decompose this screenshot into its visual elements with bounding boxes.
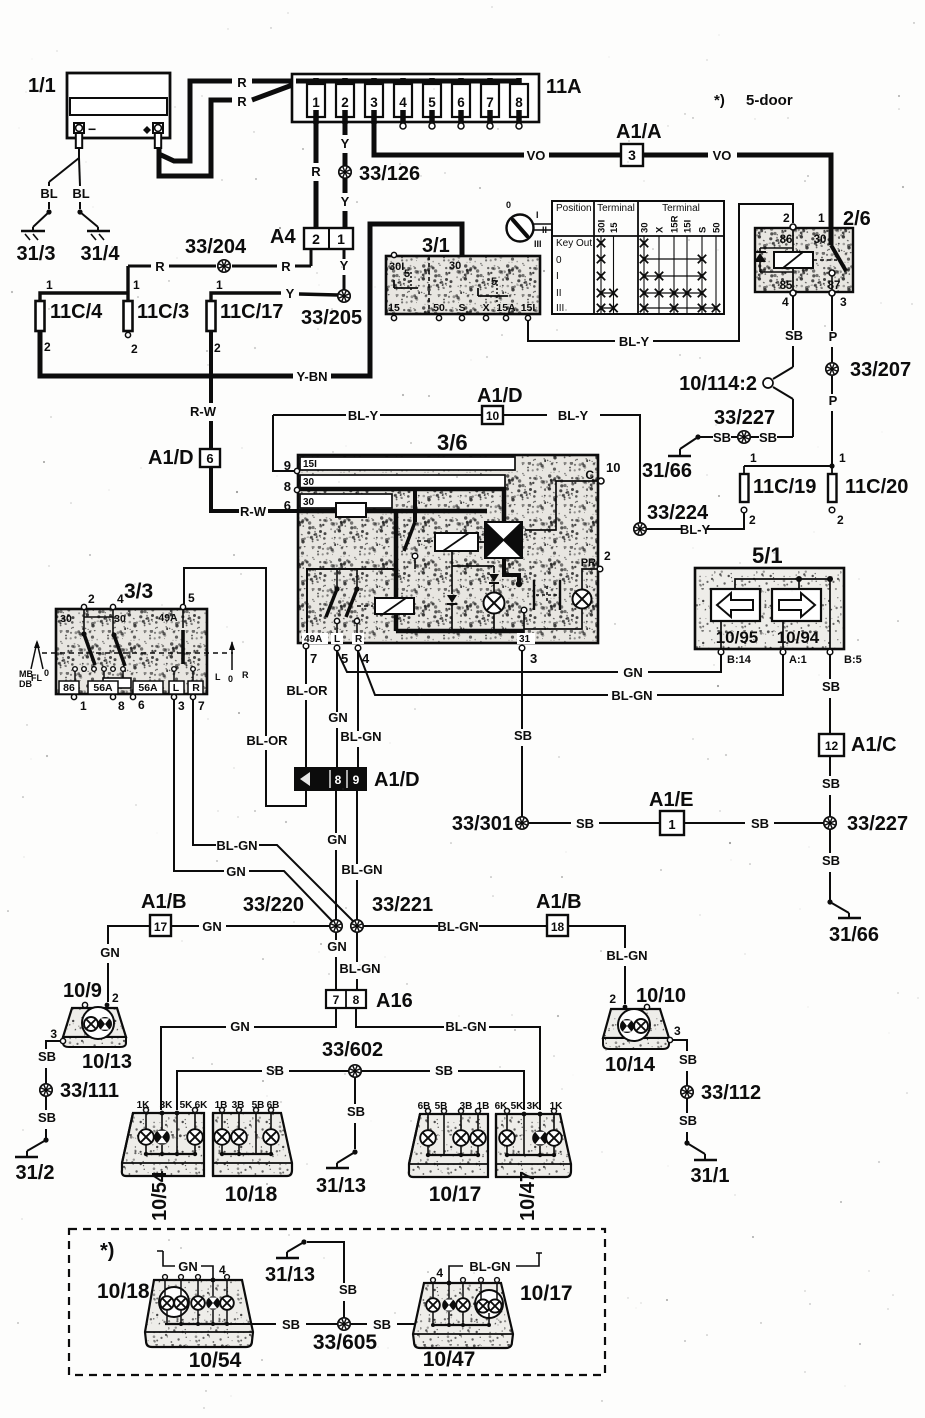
svg-text:X: X bbox=[482, 302, 489, 314]
3/6 switch upper bbox=[413, 491, 417, 522]
svg-text:BL-GN: BL-GN bbox=[606, 948, 647, 963]
svg-text:10: 10 bbox=[606, 460, 620, 475]
wire A4-1 Y down bbox=[343, 249, 346, 259]
wire VO to relay 2/6 term 30 bbox=[737, 155, 831, 228]
svg-text:30: 30 bbox=[640, 222, 651, 233]
3/3 right lever symbol bbox=[231, 642, 233, 670]
svg-text:R: R bbox=[237, 75, 247, 90]
indicator 10/95 (left arrow) bbox=[711, 589, 760, 621]
svg-text:2: 2 bbox=[341, 95, 349, 110]
svg-text:11C/17: 11C/17 bbox=[220, 301, 283, 323]
svg-text:SB: SB bbox=[785, 328, 803, 343]
svg-text:SB: SB bbox=[282, 1317, 300, 1332]
svg-text:III: III bbox=[534, 239, 542, 249]
svg-text:*): *) bbox=[100, 1240, 114, 1262]
wire SB 33/605 up to 31/13 bbox=[343, 1301, 345, 1318]
svg-text:1: 1 bbox=[750, 451, 757, 465]
3/6 bottom terminals bbox=[303, 643, 309, 649]
3/3 bottom terminals bbox=[71, 694, 76, 699]
svg-text:5: 5 bbox=[491, 276, 497, 288]
svg-text:11C/4: 11C/4 bbox=[50, 301, 103, 323]
svg-text:10/47: 10/47 bbox=[517, 1171, 539, 1221]
svg-text:Position: Position bbox=[556, 203, 592, 214]
ground 31/1 bbox=[684, 1140, 689, 1145]
svg-text:2: 2 bbox=[749, 513, 756, 527]
svg-text:15: 15 bbox=[388, 302, 400, 314]
ground 31/66 bbox=[695, 434, 700, 439]
svg-text:3K: 3K bbox=[527, 1101, 541, 1112]
wire fuse3 VO bbox=[374, 122, 524, 155]
svg-text:10/17: 10/17 bbox=[429, 1183, 482, 1206]
svg-text:33/224: 33/224 bbox=[647, 502, 709, 524]
fuse 2 bbox=[342, 78, 348, 92]
svg-text:18: 18 bbox=[551, 920, 565, 934]
svg-text:1: 1 bbox=[80, 699, 87, 713]
svg-text:1: 1 bbox=[216, 278, 223, 292]
10/54 5-door bus bbox=[166, 1310, 168, 1324]
svg-text:I: I bbox=[536, 210, 539, 220]
wire P from 2/6-87 bbox=[831, 296, 833, 331]
10/18 internal bus bbox=[221, 1145, 223, 1154]
wire fuse1 R to A4 bbox=[314, 122, 319, 163]
svg-text:BL-GN: BL-GN bbox=[611, 688, 652, 703]
svg-text:3: 3 bbox=[50, 1027, 57, 1041]
svg-text:S: S bbox=[458, 302, 465, 314]
svg-text:15I: 15I bbox=[521, 302, 536, 314]
svg-text:GN: GN bbox=[100, 945, 120, 960]
svg-text:4: 4 bbox=[399, 95, 407, 110]
svg-text:SB: SB bbox=[38, 1110, 56, 1125]
svg-text:8: 8 bbox=[515, 95, 523, 110]
wire battery plus path B (R) bbox=[159, 100, 232, 176]
svg-text:BL-Y: BL-Y bbox=[348, 408, 379, 423]
rear lamp cluster 10/17 bbox=[409, 1114, 488, 1177]
10/54 internal bus bbox=[145, 1145, 147, 1154]
svg-text:R: R bbox=[237, 94, 247, 109]
svg-text:3: 3 bbox=[628, 147, 636, 163]
svg-text:SB: SB bbox=[759, 430, 777, 445]
splice 33/605 bbox=[338, 1318, 350, 1330]
3/6 relay coil 2 + switches bbox=[375, 598, 414, 614]
svg-text:BL-GN: BL-GN bbox=[340, 729, 381, 744]
svg-text:4: 4 bbox=[782, 295, 789, 309]
splice 33/205 bbox=[338, 290, 350, 302]
svg-text:PR: PR bbox=[581, 557, 596, 569]
wire GN below 33/220 bbox=[335, 932, 337, 940]
svg-text:II: II bbox=[556, 288, 562, 299]
svg-text:50: 50 bbox=[433, 302, 445, 314]
svg-text:56A: 56A bbox=[93, 682, 113, 694]
svg-text:C: C bbox=[585, 468, 594, 482]
svg-text:8: 8 bbox=[353, 993, 360, 1007]
svg-text:0: 0 bbox=[506, 200, 511, 210]
svg-text:A1/D: A1/D bbox=[374, 769, 420, 791]
svg-text:17: 17 bbox=[154, 920, 168, 934]
svg-text:10/13: 10/13 bbox=[82, 1051, 132, 1073]
svg-text:GN: GN bbox=[178, 1259, 198, 1274]
svg-text:3/6: 3/6 bbox=[437, 430, 468, 455]
10/47 5-door bus bbox=[432, 1312, 434, 1325]
wire SB 10/54 bus to 33/605 bbox=[229, 1323, 276, 1325]
svg-text:30: 30 bbox=[814, 234, 827, 246]
svg-text:10/95: 10/95 bbox=[716, 628, 759, 647]
svg-text:1: 1 bbox=[337, 231, 345, 247]
svg-text:A1/A: A1/A bbox=[616, 121, 662, 143]
splice 33/602 bbox=[349, 1065, 361, 1077]
2/6 diode bbox=[760, 248, 793, 272]
svg-text:86: 86 bbox=[780, 234, 793, 246]
svg-text:10/18: 10/18 bbox=[225, 1183, 278, 1206]
svg-text:−: − bbox=[88, 121, 96, 137]
svg-text:12: 12 bbox=[825, 739, 839, 753]
svg-text:BL: BL bbox=[72, 186, 89, 201]
svg-text:50: 50 bbox=[712, 222, 723, 233]
svg-text:1: 1 bbox=[133, 278, 140, 292]
wire BL-GN A16-8 to 10/47 bbox=[356, 1008, 444, 1027]
svg-text:SB: SB bbox=[679, 1113, 697, 1128]
svg-text:30: 30 bbox=[303, 497, 315, 508]
2/6 terminals 85 87 bbox=[790, 290, 796, 296]
svg-text:SB: SB bbox=[822, 776, 840, 791]
svg-text:30: 30 bbox=[449, 260, 461, 272]
rear lamp cluster 10/18 bbox=[213, 1113, 292, 1176]
svg-text:*): *) bbox=[714, 92, 725, 109]
wire BL-GN 3/3-7 to 33/221 bbox=[193, 699, 216, 845]
svg-text:P: P bbox=[829, 393, 838, 408]
svg-text:BL-GN: BL-GN bbox=[216, 838, 257, 853]
svg-text:6: 6 bbox=[206, 451, 213, 466]
wire SB 33/602 to ground bbox=[354, 1077, 356, 1104]
wire SB B:5 down bbox=[829, 655, 831, 679]
svg-text:A1/D: A1/D bbox=[477, 385, 523, 407]
splice 33/207 bbox=[826, 363, 838, 375]
svg-text:8: 8 bbox=[284, 479, 291, 494]
svg-text:11C/19: 11C/19 bbox=[753, 476, 816, 498]
svg-text:2: 2 bbox=[88, 592, 95, 606]
wire BL-Y 3/1 to 2/6 bbox=[528, 320, 615, 341]
svg-text:7: 7 bbox=[310, 651, 317, 666]
svg-text:R: R bbox=[155, 259, 165, 274]
3/3 internal link bbox=[83, 610, 85, 617]
svg-text:11C/20: 11C/20 bbox=[845, 476, 908, 498]
svg-text:33/112: 33/112 bbox=[701, 1082, 761, 1104]
svg-text:31/13: 31/13 bbox=[265, 1264, 315, 1286]
svg-text:2: 2 bbox=[112, 991, 119, 1005]
svg-text:9: 9 bbox=[353, 773, 360, 787]
splice 33/204 bbox=[218, 260, 230, 272]
10/54 lamps bbox=[145, 1113, 147, 1130]
fuse 7 bbox=[487, 78, 493, 92]
svg-text:9: 9 bbox=[284, 458, 291, 473]
fuse 5 bbox=[429, 78, 435, 92]
ignition position table bbox=[552, 201, 724, 314]
svg-text:30: 30 bbox=[303, 477, 315, 488]
svg-text:56A: 56A bbox=[138, 682, 158, 694]
svg-text:Terminal: Terminal bbox=[597, 203, 635, 214]
splice 33/221 bbox=[351, 920, 363, 932]
3/3 compartments bbox=[59, 681, 79, 694]
wire SB from 2/6-85 bbox=[792, 296, 794, 330]
svg-text:BL-GN: BL-GN bbox=[437, 919, 478, 934]
5-door lamp cluster 10/54 bbox=[145, 1280, 253, 1347]
svg-text:GN: GN bbox=[623, 665, 643, 680]
svg-text:10: 10 bbox=[486, 409, 500, 423]
svg-text:33/227: 33/227 bbox=[847, 813, 908, 835]
10/47 lamps bbox=[506, 1114, 508, 1131]
svg-text:A1/E: A1/E bbox=[649, 789, 693, 811]
svg-text:5: 5 bbox=[404, 268, 410, 280]
svg-text:B:14: B:14 bbox=[727, 654, 752, 666]
fuse 3 bbox=[371, 78, 377, 92]
svg-text:2: 2 bbox=[44, 340, 51, 354]
ground 31/13 (5-door) bbox=[301, 1239, 306, 1244]
svg-text:SB: SB bbox=[339, 1282, 357, 1297]
svg-text:BL-GN: BL-GN bbox=[469, 1259, 510, 1274]
svg-text:3: 3 bbox=[840, 295, 847, 309]
svg-text:33/126: 33/126 bbox=[359, 163, 420, 185]
3/6 internal fuse bbox=[336, 503, 366, 517]
10/47 internal bus bbox=[506, 1146, 508, 1155]
svg-text:31/66: 31/66 bbox=[829, 924, 879, 946]
svg-text:33/111: 33/111 bbox=[60, 1080, 119, 1102]
svg-text:5K: 5K bbox=[511, 1101, 525, 1112]
wire BL-OR loop under A1/D to 3/3-5 bbox=[266, 750, 306, 806]
fuse 4 bbox=[400, 78, 406, 92]
3/3 49A switch bbox=[182, 610, 184, 628]
wire battery plus path A (R) bbox=[159, 81, 232, 161]
svg-text:15: 15 bbox=[609, 222, 620, 233]
svg-text:15I: 15I bbox=[683, 220, 694, 233]
svg-text:Y: Y bbox=[341, 136, 350, 151]
svg-text:Y: Y bbox=[286, 286, 295, 301]
svg-text:1: 1 bbox=[312, 95, 320, 110]
svg-text:A1/D: A1/D bbox=[148, 447, 194, 469]
svg-text:6: 6 bbox=[284, 498, 291, 513]
wire Y-BN 11C/4 to 3/1 bbox=[40, 331, 293, 376]
3/6 diode 1 bbox=[451, 551, 453, 569]
svg-text:11C/3: 11C/3 bbox=[137, 301, 189, 323]
svg-text:SB: SB bbox=[822, 853, 840, 868]
svg-text:3K: 3K bbox=[160, 1100, 174, 1111]
rear lamp cluster 10/54 bbox=[122, 1113, 204, 1176]
svg-text:R: R bbox=[242, 670, 249, 680]
2/6 switch bbox=[829, 228, 834, 245]
svg-text:BL-GN: BL-GN bbox=[445, 1019, 486, 1034]
svg-text:A16: A16 bbox=[376, 990, 413, 1012]
svg-text:BL: BL bbox=[40, 186, 57, 201]
svg-text:1: 1 bbox=[46, 278, 53, 292]
svg-text:31/66: 31/66 bbox=[642, 460, 692, 482]
svg-text:2: 2 bbox=[609, 992, 616, 1006]
svg-text:SB: SB bbox=[751, 816, 769, 831]
3/6 31 node bbox=[521, 607, 527, 613]
svg-text:A1/B: A1/B bbox=[141, 891, 187, 913]
wire SB line to 33/227 bbox=[777, 436, 793, 438]
svg-text:31: 31 bbox=[519, 634, 531, 645]
splice 33/227 bbox=[738, 431, 750, 443]
wire GN A16-7 to 10/54 bbox=[254, 1008, 336, 1027]
wire BL-GN A1/B-18 to 10/10 bbox=[568, 926, 625, 948]
5-door lamp cluster 10/47 bbox=[413, 1283, 513, 1348]
3/3 contact row bbox=[73, 667, 78, 672]
svg-text:33/207: 33/207 bbox=[850, 359, 911, 381]
wire BL-GN 3/6-4 down bbox=[357, 651, 359, 731]
svg-text:3: 3 bbox=[178, 699, 185, 713]
svg-text:49A: 49A bbox=[158, 612, 178, 624]
ground 31/13 bbox=[352, 1149, 357, 1154]
5/1 pins bbox=[718, 649, 724, 655]
3/6 relay coil 1 bbox=[417, 540, 433, 542]
svg-text:SB: SB bbox=[373, 1317, 391, 1332]
svg-text:A4: A4 bbox=[270, 226, 296, 248]
svg-text:R: R bbox=[311, 164, 321, 179]
svg-text:30I: 30I bbox=[389, 261, 404, 273]
svg-text:Terminal: Terminal bbox=[662, 203, 700, 214]
svg-text:33/220: 33/220 bbox=[243, 894, 304, 916]
wire 11C/19 to 11C/20 link bbox=[744, 465, 832, 467]
svg-text:X: X bbox=[655, 226, 666, 233]
connector A1/C pin 12 bbox=[819, 734, 844, 756]
svg-text:FL: FL bbox=[31, 673, 42, 683]
svg-text:P: P bbox=[829, 329, 838, 344]
svg-text:GN: GN bbox=[327, 939, 347, 954]
wire A4-2 to R line bbox=[310, 249, 313, 266]
wire battery minus to BL branches bbox=[78, 148, 80, 158]
svg-text:31/3: 31/3 bbox=[17, 243, 56, 265]
svg-text:R-W: R-W bbox=[190, 404, 217, 419]
svg-text:L: L bbox=[334, 634, 340, 645]
svg-text:SB: SB bbox=[679, 1052, 697, 1067]
connector A16 bbox=[326, 990, 366, 1008]
svg-text:GN: GN bbox=[327, 832, 347, 847]
5/1 internal wires bbox=[735, 579, 830, 589]
wire SB to 10/47-5K bbox=[458, 1071, 524, 1110]
splice 33/111 bbox=[40, 1084, 52, 1096]
svg-text:A1/B: A1/B bbox=[536, 891, 582, 913]
splice 33/112 bbox=[681, 1086, 693, 1098]
wire fuse2 Y bbox=[343, 122, 348, 135]
svg-text:10/14: 10/14 bbox=[605, 1054, 656, 1076]
key symbol bbox=[507, 215, 534, 242]
fuse 1 bbox=[313, 78, 319, 92]
rear lamp cluster 10/47 bbox=[496, 1114, 571, 1177]
svg-text:15R: 15R bbox=[670, 215, 681, 233]
svg-text:33/602: 33/602 bbox=[322, 1039, 383, 1061]
svg-text:BL-GN: BL-GN bbox=[341, 862, 382, 877]
splice 33/301 bbox=[516, 817, 528, 829]
svg-text:R-W: R-W bbox=[240, 504, 267, 519]
fuse 6 bbox=[458, 78, 464, 92]
splice 33/220 bbox=[330, 920, 342, 932]
wire fuse bus bbox=[296, 79, 519, 84]
svg-text:30: 30 bbox=[60, 613, 72, 625]
5-door variant dashed box bbox=[69, 1229, 605, 1375]
svg-text:1: 1 bbox=[839, 451, 846, 465]
svg-text:III: III bbox=[556, 303, 564, 314]
10/47 5-door terminals bbox=[431, 1278, 436, 1283]
svg-text:2: 2 bbox=[131, 342, 138, 356]
svg-text:8: 8 bbox=[335, 773, 342, 787]
svg-text:SB: SB bbox=[38, 1049, 56, 1064]
10/47 5-door lamps bbox=[426, 1298, 440, 1312]
svg-text:0: 0 bbox=[556, 255, 562, 266]
svg-text:1: 1 bbox=[818, 211, 825, 225]
svg-text:B:5: B:5 bbox=[844, 654, 862, 666]
svg-text:31/4: 31/4 bbox=[81, 243, 121, 265]
svg-text:BL-OR: BL-OR bbox=[246, 733, 288, 748]
svg-text:3: 3 bbox=[370, 95, 378, 110]
wire GN A1/D to 33/220 bbox=[335, 790, 337, 833]
svg-text:GN: GN bbox=[226, 864, 246, 879]
svg-text:2: 2 bbox=[604, 549, 611, 563]
svg-text:BL-Y: BL-Y bbox=[619, 334, 650, 349]
3/6 internal thick bus bbox=[394, 511, 399, 598]
wire BL-Y 33/224 to 11C/19 bbox=[707, 513, 744, 529]
svg-text:3/3: 3/3 bbox=[124, 580, 153, 603]
svg-text:Y-BN: Y-BN bbox=[296, 369, 327, 384]
svg-text:31/1: 31/1 bbox=[691, 1165, 730, 1187]
svg-text:4: 4 bbox=[436, 1266, 443, 1280]
svg-text:30I: 30I bbox=[597, 220, 608, 233]
svg-text:5-door: 5-door bbox=[746, 92, 793, 109]
svg-text:10/9: 10/9 bbox=[63, 980, 102, 1002]
svg-text:BL-OR: BL-OR bbox=[286, 683, 328, 698]
wire R line 33/204 bbox=[128, 265, 151, 268]
10/54 5-door terminals bbox=[163, 1275, 168, 1280]
svg-text:S: S bbox=[698, 227, 709, 233]
svg-text:4: 4 bbox=[219, 1263, 226, 1277]
svg-text:33/301: 33/301 bbox=[452, 813, 513, 835]
svg-text:5/1: 5/1 bbox=[752, 543, 783, 568]
wire BL-GN below 33/221 bbox=[356, 932, 358, 962]
3/3 left lever symbol bbox=[31, 642, 37, 669]
svg-text:33/204: 33/204 bbox=[185, 236, 247, 258]
svg-text:2: 2 bbox=[783, 211, 790, 225]
10/54 5-door lamps bbox=[159, 1287, 189, 1317]
svg-text:5: 5 bbox=[188, 591, 195, 605]
wire GN 3/6-5 down bbox=[336, 651, 338, 712]
3/3 switch arms bbox=[81, 631, 86, 636]
3/6 diode 2 + lamp bbox=[493, 566, 495, 573]
svg-text:0: 0 bbox=[44, 668, 49, 678]
2/6 coil bbox=[792, 230, 794, 252]
ground 31/2 bbox=[43, 1137, 48, 1142]
10/18 lamps bbox=[221, 1113, 223, 1130]
svg-text:BL-Y: BL-Y bbox=[558, 408, 589, 423]
svg-text:7: 7 bbox=[333, 993, 340, 1007]
3/6 rectifier bridge bbox=[484, 521, 523, 559]
svg-text:I: I bbox=[556, 271, 559, 282]
svg-text:6: 6 bbox=[138, 698, 145, 712]
10/17 lamps bbox=[427, 1114, 429, 1131]
ground 31/66 (lower) bbox=[827, 899, 832, 904]
svg-text:R: R bbox=[281, 259, 291, 274]
svg-text:L: L bbox=[215, 672, 221, 682]
svg-text:4: 4 bbox=[117, 592, 124, 606]
svg-text:2: 2 bbox=[214, 341, 221, 355]
svg-text:SB: SB bbox=[822, 679, 840, 694]
svg-text:33/605: 33/605 bbox=[313, 1331, 378, 1354]
svg-text:1: 1 bbox=[668, 817, 675, 832]
fuse 8 bbox=[516, 78, 522, 92]
svg-text:31/2: 31/2 bbox=[16, 1162, 55, 1184]
svg-text:86: 86 bbox=[63, 682, 75, 694]
svg-text:10/47: 10/47 bbox=[423, 1348, 476, 1371]
svg-text:6: 6 bbox=[457, 95, 465, 110]
svg-text:15A: 15A bbox=[496, 302, 516, 314]
10/17 internal bus bbox=[427, 1146, 429, 1155]
svg-text:33/221: 33/221 bbox=[372, 894, 433, 916]
